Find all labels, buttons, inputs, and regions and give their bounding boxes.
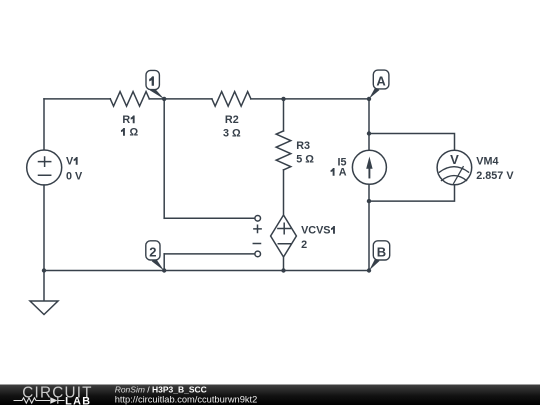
VCVS1 control minus terminal (255, 251, 261, 257)
current source I5 (352, 150, 386, 184)
wire VCVS1 bottom lead (283, 258, 285, 271)
junction VCVS bottom dot (281, 268, 285, 272)
wire R1 to R2 through node 1 (149, 98, 212, 100)
svg-text:A: A (376, 74, 386, 89)
junction R2/R3 dot (281, 97, 285, 101)
junction node 2 dot (162, 268, 166, 272)
VCVS1 control minus sign (253, 243, 260, 245)
svg-text:R2: R2 (225, 114, 239, 126)
wire voltmeter branch bottom (369, 185, 455, 201)
svg-text:VCVS: VCVS (301, 225, 330, 237)
VCVS1 control plus terminal (255, 216, 261, 222)
svg-text:RonSim / H3P3_B_SCC: RonSim / H3P3_B_SCC (115, 385, 207, 395)
svg-text:2.857 V: 2.857 V (476, 170, 514, 182)
wire top-left horizontal from V1 branch to R1 (44, 98, 110, 100)
wire bottom horizontal (44, 270, 369, 272)
wire I5 bottom to node B (368, 184, 370, 270)
junction node B dot (367, 268, 371, 272)
svg-text:Ω: Ω (130, 127, 139, 139)
svg-text:V: V (66, 156, 74, 168)
wire ground stem (43, 271, 45, 302)
svg-text:VM4: VM4 (476, 156, 498, 168)
ground (30, 301, 58, 315)
junction voltmeter top dot (367, 131, 371, 135)
wire node 1 horizontal to VCVS plus control terminal (164, 217, 255, 219)
svg-text:B: B (377, 244, 386, 259)
svg-text:V: V (450, 152, 459, 167)
resistor R3 (276, 131, 291, 170)
svg-text:5 Ω: 5 Ω (296, 153, 314, 165)
dependent source VCVS1 (271, 215, 297, 257)
svg-text:2: 2 (301, 239, 307, 251)
wire R3 bottom lead to VCVS1 (283, 170, 285, 214)
svg-text:0 V: 0 V (66, 170, 83, 182)
node A flag (369, 87, 379, 99)
wire voltmeter branch top (369, 134, 455, 151)
wire node 2 vertical up (163, 254, 165, 271)
svg-text:A: A (339, 167, 347, 179)
node 1 flag (150, 87, 165, 100)
svg-text:R: R (122, 114, 130, 126)
resistor R1 (110, 92, 149, 107)
svg-text:LAB: LAB (65, 396, 91, 405)
wire node A vertical to I5 (368, 99, 370, 150)
node 2 flag (152, 258, 165, 271)
svg-text:2: 2 (149, 244, 156, 259)
svg-text:R3: R3 (296, 140, 310, 152)
junction node 1 dot (162, 97, 166, 101)
CircuitLab logo resistor-diode glyph (14, 397, 65, 404)
svg-text:http://circuitlab.com/ccutburw: http://circuitlab.com/ccutburwn9kt2 (115, 395, 258, 405)
voltage source V1 (27, 150, 62, 185)
wire left vertical upper (top wire corner down to V1) (43, 99, 45, 150)
wire left vertical lower (V1 to bottom wire) (43, 185, 45, 271)
junction ground dot (42, 268, 46, 272)
resistor R2 (212, 92, 251, 107)
wire node 2 horizontal to VCVS minus control terminal (164, 253, 255, 255)
voltmeter VM4 (437, 150, 472, 185)
junction voltmeter bottom dot (367, 199, 371, 203)
wire R2 to node A (251, 98, 369, 100)
wire node 1 vertical down (163, 99, 165, 218)
junction node A dot (367, 97, 371, 101)
node B flag (369, 258, 379, 270)
wire R3 top lead from top wire (283, 99, 285, 131)
svg-text:3 Ω: 3 Ω (223, 128, 241, 140)
VCVS1 control plus sign (254, 225, 261, 232)
